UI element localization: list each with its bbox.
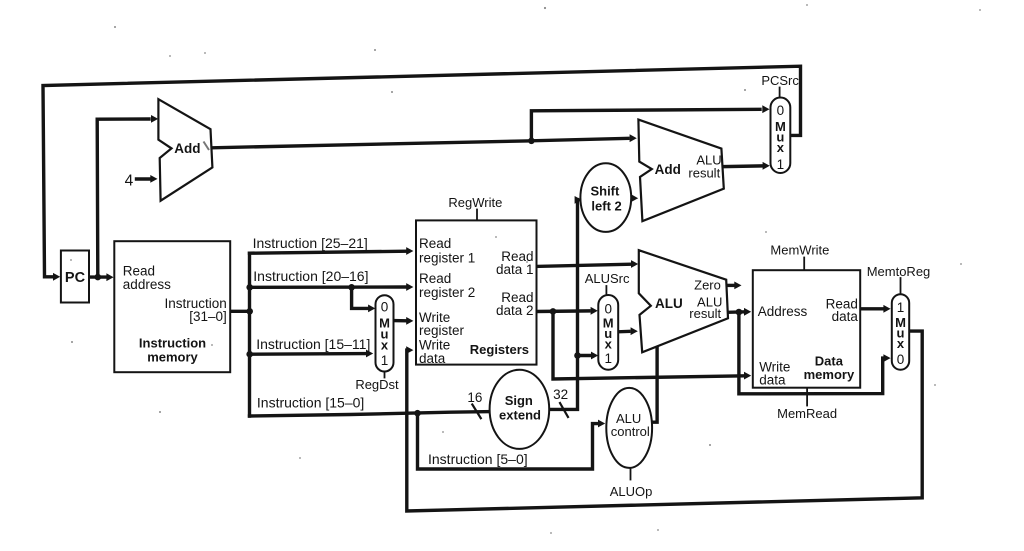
junction on PC+4 wire [528, 138, 535, 145]
slash 32-bit bus [560, 403, 568, 417]
wire Instruction[20-16] to Read register 2 [250, 285, 407, 289]
registers box [416, 220, 537, 364]
svg-text:RegWrite: RegWrite [448, 195, 502, 210]
svg-text:x: x [777, 140, 785, 155]
wire Instruction[15-0] to Sign extend [250, 412, 491, 416]
svg-text:32: 32 [553, 387, 568, 402]
svg-text:data: data [832, 309, 859, 324]
svg-text:Instruction [20–16]: Instruction [20–16] [253, 268, 368, 284]
wire ALU control output to ALU [652, 346, 657, 422]
svg-text:register 2: register 2 [419, 285, 475, 300]
register PC [61, 251, 89, 303]
svg-text:1: 1 [604, 351, 612, 366]
wire Instruction[31-0] from Instruction memory [230, 310, 249, 313]
wire Instruction[20-16] to RegDst mux input 0 [352, 287, 367, 308]
svg-text:Shift: Shift [590, 184, 620, 199]
ALU control unit [606, 388, 652, 468]
wire Sign extend output (32) up to Shift left 2 [549, 200, 578, 409]
svg-text:0: 0 [777, 103, 785, 118]
svg-text:x: x [605, 336, 613, 351]
shift left 2 unit [580, 163, 631, 232]
wire ALUSrc mux output to ALU input [618, 330, 629, 334]
mux ALUSrc [598, 295, 618, 370]
svg-text:data: data [419, 351, 446, 366]
wire Read data 2 to ALUSrc mux input 0 [537, 309, 590, 313]
svg-text:data 1: data 1 [496, 262, 534, 277]
wire PC to Instruction memory Read address [89, 275, 106, 278]
svg-text:result: result [689, 306, 721, 321]
svg-text:Add: Add [174, 141, 200, 156]
scan artifact near Add [204, 142, 210, 151]
svg-text:data: data [759, 373, 786, 388]
svg-text:register: register [419, 323, 465, 338]
svg-text:0: 0 [381, 300, 389, 315]
adder Add (branch target) [638, 120, 723, 222]
svg-text:Instruction: Instruction [139, 335, 206, 350]
svg-text:MemtoReg: MemtoReg [867, 264, 931, 279]
sign extend unit [490, 370, 550, 449]
svg-text:Sign: Sign [505, 393, 533, 408]
control stub MemRead [806, 387, 808, 406]
control stub RegWrite [476, 210, 478, 222]
svg-text:1: 1 [381, 353, 389, 368]
wire Read data 1 to ALU input [537, 264, 631, 266]
svg-text:result: result [688, 166, 720, 181]
svg-text:data 2: data 2 [496, 303, 534, 318]
svg-text:1: 1 [897, 300, 905, 315]
svg-text:Address: Address [758, 304, 808, 319]
mux MemtoReg [892, 294, 909, 369]
svg-text:ALUOp: ALUOp [610, 484, 653, 499]
wire Instruction[5-0] to ALU control [418, 413, 598, 469]
svg-text:[31–0]: [31–0] [189, 309, 227, 324]
wire Read data 2 to Data memory Write data [553, 311, 744, 379]
svg-text:Read: Read [419, 236, 451, 251]
wire PC to Add input [97, 119, 149, 277]
svg-text:1: 1 [777, 157, 785, 172]
svg-text:address: address [123, 277, 171, 292]
svg-text:Instruction [15–0]: Instruction [15–0] [257, 395, 364, 411]
svg-text:control: control [611, 424, 650, 439]
wire Add2 ALU result to PCSrc mux input 1 [724, 164, 762, 168]
svg-text:left 2: left 2 [591, 198, 621, 213]
wire MemtoReg mux output to Registers Write data (bottom loop) [407, 331, 922, 511]
control stub RegDst [384, 372, 386, 378]
junction on PC output [95, 274, 102, 281]
mux PCSrc [771, 98, 791, 174]
svg-text:Instruction [15–11]: Instruction [15–11] [256, 336, 370, 352]
wire PCSrc mux output to PC (top loop) [43, 66, 801, 277]
svg-text:PCSrc: PCSrc [761, 73, 799, 88]
wire instruction bus vertical [248, 253, 251, 416]
wire constant 4 to Add [137, 177, 150, 180]
adder Add (PC+4) [158, 99, 212, 201]
junction on Instruction[20-16] [348, 284, 355, 291]
wire ALU Zero output [728, 284, 734, 287]
svg-text:0: 0 [897, 352, 905, 367]
wire PC+4 branch to PCSrc mux input 0 [531, 109, 760, 141]
svg-text:x: x [897, 336, 905, 351]
svg-text:Zero: Zero [694, 278, 721, 293]
svg-text:16: 16 [467, 390, 482, 405]
control stub ALUSrc [605, 286, 607, 296]
junction on ALU result [736, 309, 743, 316]
slash 16-bit bus [472, 405, 481, 419]
data memory box [753, 270, 860, 388]
wire Instruction[25-21] to Read register 1 [250, 251, 407, 253]
junction instruction bus at [20-16] [246, 284, 253, 291]
wire sign-extend branch to ALUSrc mux input 1 [578, 354, 591, 357]
svg-text:register 1: register 1 [419, 250, 475, 265]
wire Shift left 2 output to Add2 [631, 197, 633, 201]
svg-text:memory: memory [804, 367, 855, 382]
wire ALU result to MemtoReg mux input 0 [739, 312, 884, 394]
svg-text:Read: Read [419, 271, 451, 286]
ALU [639, 250, 728, 352]
svg-text:4: 4 [125, 172, 134, 189]
svg-text:PC: PC [65, 270, 86, 286]
wire RegDst mux output to Write register [394, 319, 407, 323]
wire Data memory Read data to MemtoReg mux input 1 [860, 307, 883, 310]
svg-text:x: x [381, 337, 389, 352]
junction on Read data 2 [550, 308, 557, 315]
control stub MemWrite [803, 258, 805, 272]
svg-text:Instruction [25–21]: Instruction [25–21] [253, 235, 368, 251]
svg-text:ALU: ALU [655, 296, 683, 311]
junction on Instruction[15-0] for [5-0] tap [414, 410, 421, 417]
svg-text:Registers: Registers [470, 342, 529, 357]
wire Instruction[15-11] to RegDst mux input 1 [250, 352, 366, 356]
svg-text:Instruction [5–0]: Instruction [5–0] [428, 451, 528, 467]
svg-text:Add: Add [655, 162, 681, 177]
svg-text:0: 0 [604, 302, 612, 317]
svg-text:RegDst: RegDst [355, 377, 399, 392]
junction instruction bus at [31-0] [246, 308, 253, 315]
svg-text:extend: extend [499, 408, 541, 423]
instruction memory box [114, 241, 230, 372]
junction on sign-extend line for ALUSrc mux [574, 352, 581, 359]
control stub ALUOp [630, 468, 632, 480]
control stub PCSrc [779, 88, 781, 99]
svg-text:MemWrite: MemWrite [770, 243, 829, 258]
svg-text:ALUSrc: ALUSrc [585, 271, 630, 286]
junction instruction bus at [15-11] [246, 351, 253, 358]
control stub MemtoReg [900, 278, 902, 295]
svg-text:memory: memory [147, 349, 198, 364]
mux RegDst [376, 295, 394, 371]
wire Add output PC+4 [212, 141, 531, 148]
svg-text:MemRead: MemRead [777, 406, 837, 421]
wire ALU result to Data memory Address [728, 310, 744, 314]
